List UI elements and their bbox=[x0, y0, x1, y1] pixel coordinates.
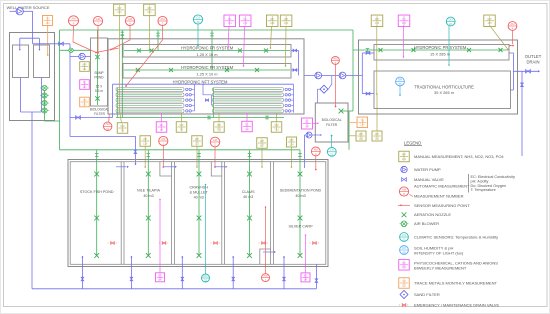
pond3 outlet baffle channel bbox=[211, 162, 222, 176]
svg-text:TM: TM bbox=[360, 118, 364, 122]
svg-text:22: 22 bbox=[402, 238, 406, 242]
legend manual valve symbol bbox=[402, 178, 407, 182]
wire NFT left group collector bbox=[194, 84, 196, 111]
instrument SH 30 soil humidity bbox=[396, 77, 405, 86]
valve nozzle PR-3 bbox=[467, 48, 471, 52]
wire WP T12 stem bbox=[276, 113, 278, 122]
arrow pond2 standpipe bbox=[130, 256, 132, 258]
svg-text:HYDROPONIC PR SYSTEM: HYDROPONIC PR SYSTEM bbox=[414, 45, 467, 50]
svg-text:124: 124 bbox=[360, 123, 365, 127]
svg-text:117: 117 bbox=[195, 141, 200, 145]
valve NFT rail a bbox=[207, 116, 211, 119]
valve nozzle pond5 top bbox=[298, 172, 303, 177]
wire tanks collector bbox=[21, 111, 42, 113]
sensor dot PR outlet red bbox=[509, 45, 513, 47]
wire feed stub horticulture bbox=[362, 93, 374, 95]
wire TM sump stub bbox=[89, 101, 90, 103]
NFT channel g2 row 5 bbox=[213, 109, 284, 113]
svg-text:23: 23 bbox=[196, 20, 200, 24]
svg-text:AM: AM bbox=[402, 187, 407, 191]
sensor box WP 107 pond4 bbox=[257, 138, 268, 149]
wire NFT right stubs bbox=[291, 88, 294, 90]
legend abbreviation divider bbox=[467, 174, 469, 193]
svg-text:EC: Electrical Conductivity: EC: Electrical Conductivity bbox=[471, 175, 516, 179]
sensor box TM greenhouse2 bbox=[357, 117, 368, 128]
wire EC pond2 probe bbox=[159, 200, 161, 273]
svg-text:FILTER: FILTER bbox=[326, 123, 338, 127]
valve nozzle pond2 mid bbox=[146, 216, 151, 221]
wire NFT left supply downcomer bbox=[112, 84, 114, 117]
svg-text:WP: WP bbox=[117, 6, 121, 10]
hydroponic FR system 2 box bbox=[123, 64, 291, 79]
svg-text:15 X: 15 X bbox=[96, 85, 103, 89]
svg-text:PC: PC bbox=[228, 17, 232, 21]
svg-text:CS: CS bbox=[330, 148, 334, 152]
valve pond4 drain bbox=[232, 277, 235, 281]
wire AM2 sensor into pond3 bbox=[214, 147, 216, 167]
well inner tank 2 bbox=[34, 45, 50, 78]
instrument CS 21 climate sensor bbox=[327, 147, 336, 156]
valve pond2 drain bbox=[130, 277, 133, 281]
valve air drop FR2 bbox=[210, 33, 214, 36]
wire TM sample line bbox=[47, 26, 49, 56]
wire WP103 sensor line to NFT bbox=[119, 15, 121, 123]
valve nozzle FR1-3 bbox=[238, 49, 242, 53]
wire EC NFT b stem bbox=[246, 113, 248, 122]
svg-text:PC: PC bbox=[83, 81, 87, 85]
svg-text:T: Temperature: T: Temperature bbox=[471, 188, 496, 192]
wire PC113 sensor line bbox=[244, 27, 245, 66]
svg-text:WP: WP bbox=[289, 138, 293, 142]
svg-text:1XX: 1XX bbox=[402, 265, 407, 269]
svg-text:pH: pH bbox=[305, 124, 308, 128]
NFT channel g1 row 4 bbox=[116, 104, 184, 108]
wire pond5 bottom drain bbox=[283, 256, 285, 289]
wire WP sump stub bbox=[89, 66, 90, 68]
wire drop into tank2 bbox=[38, 38, 40, 50]
fitting NFT g1 row 1 outlet bbox=[186, 88, 188, 90]
sensor box WP 102 top bbox=[144, 4, 156, 16]
greenhouse block 1 outline bbox=[108, 39, 304, 114]
instrument AM 9 automatic measurement bbox=[311, 147, 320, 156]
biological filter box bbox=[315, 103, 348, 142]
wire WP109 sensor line bbox=[271, 27, 272, 48]
arrow flow pond3 to pond4 bbox=[215, 166, 226, 168]
valve nozzle sump lower bbox=[95, 96, 99, 100]
wire NFT green rail left g1 bbox=[116, 88, 118, 118]
instrument AM 11 pond4 bottom bbox=[262, 274, 270, 282]
air blower B5 on sump branch bbox=[69, 48, 73, 52]
svg-text:CLAMS: CLAMS bbox=[242, 190, 255, 194]
well tank box bbox=[10, 33, 55, 121]
wire pond3 bottom drain bbox=[181, 256, 183, 289]
sensor box WP 108 top greenhouse2 bbox=[484, 15, 496, 26]
svg-text:WP: WP bbox=[375, 17, 379, 21]
wire tank1 outlet bbox=[20, 78, 22, 113]
pond4 outlet baffle channel bbox=[260, 249, 271, 264]
wire pond5 aeration drop bbox=[299, 150, 301, 256]
svg-text:SAND FILTER: SAND FILTER bbox=[414, 292, 440, 297]
wire WP T8 stem bbox=[181, 113, 183, 122]
wire pond1 aeration drop bbox=[96, 150, 98, 256]
svg-text:101: 101 bbox=[402, 157, 407, 161]
svg-text:12X: 12X bbox=[402, 283, 407, 287]
instrument AM 3 bbox=[158, 16, 167, 25]
valve emergency drain pond5 bbox=[310, 242, 312, 244]
wire air drop to sump pond bbox=[97, 30, 99, 40]
svg-text:AM: AM bbox=[106, 122, 111, 126]
wire WP108 sensor line diagonal bbox=[490, 25, 509, 49]
wire WP b riser to horticulture valve bbox=[376, 94, 378, 131]
wire WP106 sensor line through PR bbox=[376, 25, 378, 94]
wire NFT collector stub bbox=[191, 88, 194, 90]
NFT channel g1 row 1 bbox=[116, 88, 184, 92]
svg-text:40 m3: 40 m3 bbox=[243, 195, 253, 199]
wire biofilter pump discharge bbox=[312, 134, 321, 136]
fitting NFT g1 row 2 outlet bbox=[186, 94, 188, 96]
wire NFT collector stub bbox=[191, 105, 194, 107]
valve nozzle pond2 top bbox=[146, 172, 151, 177]
wire PR outlet drop bbox=[509, 53, 513, 90]
wire AM3 sensor line to NFT bbox=[126, 26, 163, 86]
wire main drain header bbox=[32, 288, 316, 290]
valve nozzle sump upper bbox=[95, 55, 99, 59]
svg-text:WP: WP bbox=[179, 123, 183, 127]
wire PR irrigation line bbox=[353, 49, 508, 51]
svg-text:WP: WP bbox=[270, 17, 274, 21]
arrow pond3 standpipe bbox=[181, 256, 183, 258]
arrow flow pond4 to pond5 bbox=[263, 251, 274, 253]
svg-text:WP: WP bbox=[402, 153, 406, 157]
valve nozzle pond4 bottom bbox=[247, 253, 252, 258]
svg-text:WP: WP bbox=[217, 123, 221, 127]
fitting NFT g2 row 3 outlet bbox=[285, 99, 287, 101]
svg-text:WATER PUMP: WATER PUMP bbox=[414, 167, 441, 172]
wire air drop to NFT rail bbox=[121, 30, 123, 118]
svg-text:EC: EC bbox=[245, 123, 249, 127]
pump P3 transfer pump 1 bbox=[315, 72, 322, 79]
wire well supply header bbox=[10, 10, 17, 12]
svg-text:103: 103 bbox=[117, 10, 122, 14]
wire air branch to sump surface bbox=[60, 49, 91, 51]
wire DO22 probe bbox=[205, 185, 207, 275]
valve nozzle pond4 top bbox=[247, 172, 252, 177]
svg-text:INTENSITY OF LIGHT (lux): INTENSITY OF LIGHT (lux) bbox=[414, 251, 464, 256]
svg-text:114: 114 bbox=[289, 142, 294, 146]
svg-text:109: 109 bbox=[270, 21, 275, 25]
svg-text:T10: T10 bbox=[217, 127, 222, 131]
svg-text:112: 112 bbox=[228, 21, 233, 25]
svg-text:WP: WP bbox=[143, 137, 147, 141]
valve nozzle pond3 mid bbox=[197, 216, 202, 221]
svg-text:AERATION NOZZLE: AERATION NOZZLE bbox=[414, 212, 451, 217]
wire air main top header bbox=[60, 29, 354, 31]
svg-text:AM: AM bbox=[314, 147, 319, 151]
svg-text:AM: AM bbox=[71, 17, 76, 21]
valve nozzle FR1-1 bbox=[137, 49, 141, 53]
sensor box TM at sump bbox=[80, 97, 90, 107]
svg-text:WP: WP bbox=[284, 17, 288, 21]
wire FR1 outlet stub bbox=[291, 50, 299, 52]
wire NFT aeration rail bbox=[116, 117, 284, 119]
svg-text:MEASUREMENT NUMBER: MEASUREMENT NUMBER bbox=[414, 194, 464, 199]
sensor box WP T12 bbox=[271, 122, 282, 133]
svg-text:AM: AM bbox=[161, 137, 166, 141]
legend measurement number arrow bbox=[410, 195, 414, 197]
valve emergency drain pond1 bbox=[108, 242, 110, 244]
wire NFT collector stub bbox=[191, 94, 194, 96]
svg-text:pH: pH bbox=[304, 278, 307, 282]
wire pond2 bottom drain bbox=[130, 256, 132, 289]
sensor box WP T10 bbox=[214, 122, 225, 133]
svg-text:TRADITIONAL HORTICULTURE: TRADITIONAL HORTICULTURE bbox=[414, 84, 474, 89]
sand filter SF1 bbox=[320, 85, 328, 93]
wire air drop to FR1 bbox=[157, 30, 159, 51]
pump P1 well water pump bbox=[16, 8, 23, 15]
svg-text:105: 105 bbox=[359, 136, 364, 140]
valve emergency drain pond3 bbox=[211, 242, 213, 244]
wire sand filter to biofilter bbox=[318, 89, 321, 103]
svg-text:AM: AM bbox=[128, 17, 133, 21]
wire blower manifold bbox=[44, 90, 46, 121]
wire AM6 sensor line to sump bbox=[111, 26, 130, 50]
svg-text:35 X 265 m: 35 X 265 m bbox=[434, 90, 454, 95]
valve nozzle FR2-3 bbox=[225, 68, 229, 72]
valve pond2 air inlet bbox=[147, 154, 151, 157]
wire AM7 sensor line bbox=[97, 26, 99, 53]
sensor box WP 117 pond3 bbox=[192, 136, 203, 147]
arrow pond5 standpipe bbox=[283, 256, 285, 258]
wire outlet drain header bbox=[513, 70, 539, 72]
svg-text:SILVER CARP: SILVER CARP bbox=[288, 225, 313, 229]
wire PC115 sensor line bbox=[403, 25, 405, 57]
wire EC stub into biofilter bbox=[313, 122, 319, 124]
sensor box WP at sump bbox=[80, 62, 90, 72]
svg-text:N: N bbox=[403, 192, 405, 196]
svg-text:AM: AM bbox=[510, 22, 515, 26]
svg-text:SUMP: SUMP bbox=[94, 71, 103, 75]
svg-text:TM: TM bbox=[402, 279, 406, 283]
instrument AM 6 bbox=[125, 16, 134, 25]
svg-text:BIOLOGICAL: BIOLOGICAL bbox=[90, 108, 110, 112]
wire EC NFT a stem bbox=[161, 113, 163, 122]
legend sand filter symbol bbox=[400, 291, 408, 299]
valve nozzle pond1 top bbox=[94, 172, 99, 177]
wire distribution header in well box bbox=[20, 37, 40, 39]
svg-text:T12: T12 bbox=[274, 127, 279, 131]
wire EC pond5 probe bbox=[305, 235, 307, 273]
sensor box PC 113 top bbox=[239, 15, 251, 26]
wire main riser x70 bbox=[69, 44, 71, 137]
svg-text:HYDROPONIC NFT SYSTEM: HYDROPONIC NFT SYSTEM bbox=[173, 79, 228, 84]
wire AM11 probe bbox=[265, 207, 267, 274]
svg-text:20: 20 bbox=[449, 22, 453, 26]
svg-text:40 m3: 40 m3 bbox=[295, 194, 305, 198]
legend automatic measurement symbol bbox=[399, 187, 408, 196]
svg-text:TRACE METALS MONTHLY MEASUREME: TRACE METALS MONTHLY MEASUREMENT bbox=[414, 281, 497, 286]
legend climatic sensor symbol bbox=[400, 233, 409, 242]
pond divider wall 1 bbox=[120, 162, 122, 265]
wire FR collector riser bbox=[298, 51, 300, 76]
sensor box WP 109 top bbox=[266, 15, 278, 26]
svg-text:EC: EC bbox=[304, 273, 308, 277]
wire WP117 sensor into pond3 bbox=[196, 146, 198, 167]
legend aeration nozzle symbol bbox=[402, 212, 407, 217]
valve nozzle pond2 bottom bbox=[146, 253, 151, 258]
sensor box WP T6 bbox=[117, 123, 128, 134]
wire pond4 bottom drain bbox=[232, 256, 234, 289]
svg-text:102: 102 bbox=[147, 10, 152, 14]
sump pond box bbox=[91, 38, 108, 106]
svg-text:SH: SH bbox=[402, 246, 407, 250]
svg-text:WP: WP bbox=[359, 132, 363, 136]
wire AM10 sensor line up to NFT bbox=[108, 114, 111, 122]
svg-text:POND: POND bbox=[94, 76, 104, 80]
valve FR1 outlet bbox=[293, 49, 297, 52]
valve nozzle pond1 mid bbox=[94, 216, 99, 221]
svg-text:PC: PC bbox=[243, 17, 247, 21]
pond divider wall 3 bbox=[221, 162, 223, 265]
well inner tank 1 bbox=[13, 45, 29, 78]
svg-text:WP: WP bbox=[195, 137, 199, 141]
valve outlet drain bbox=[526, 70, 531, 74]
wire CS23 stem bbox=[197, 24, 199, 45]
wire sump aeration line bbox=[97, 40, 99, 105]
valve nozzle PR-2 bbox=[412, 48, 416, 52]
svg-text:SH: SH bbox=[398, 78, 403, 82]
instrument AM 2 bbox=[210, 137, 220, 147]
fitting NFT g2 row 4 outlet bbox=[285, 104, 287, 106]
wire AM1 sensor into pond2 bbox=[162, 146, 164, 167]
valve nozzle FR1-2 bbox=[150, 49, 154, 53]
NFT channel g2 row 1 bbox=[213, 88, 284, 92]
sensor box EC-pH biofilter bbox=[302, 118, 313, 129]
wire well drain riser bbox=[31, 112, 33, 289]
wire FR2 irrigation line bbox=[124, 69, 290, 71]
wire air main right vertical to biofilter bbox=[352, 30, 354, 111]
valve pond1 air inlet bbox=[95, 154, 99, 157]
pump P4 transfer pump 2 bbox=[339, 72, 346, 79]
svg-text:108: 108 bbox=[487, 21, 492, 25]
svg-text:WP: WP bbox=[147, 6, 151, 10]
svg-text:TM: TM bbox=[83, 98, 87, 102]
wire WP manual link bbox=[348, 135, 356, 137]
wire CS climate link bbox=[331, 136, 333, 148]
pump P5 biofilter pump bbox=[306, 132, 312, 138]
svg-text:MANUAL VALVE: MANUAL VALVE bbox=[414, 177, 444, 182]
hydroponic FR system 1 box bbox=[123, 45, 291, 58]
pond block outer wall bbox=[68, 160, 328, 267]
NFT channel g1 row 5 bbox=[116, 109, 184, 113]
svg-text:WP: WP bbox=[375, 132, 379, 136]
arrow flow pond2 to pond3 bbox=[164, 166, 175, 168]
wire air pond manifold bbox=[60, 149, 301, 151]
instrument AM 7 bbox=[93, 16, 102, 25]
wire NFT collector stub bbox=[191, 99, 194, 101]
legend soil humidity symbol bbox=[400, 246, 409, 255]
svg-text:1.25 X 10 m: 1.25 X 10 m bbox=[197, 52, 218, 57]
valve V1 manual valve well export bbox=[59, 42, 64, 46]
valve feed PR bbox=[366, 52, 370, 55]
sensor box WP g2 b bbox=[372, 131, 382, 141]
valve NFT supply bbox=[76, 116, 81, 120]
valve nozzle pond5 bottom bbox=[298, 253, 303, 258]
valve pond3 air inlet bbox=[197, 154, 201, 157]
svg-text:WP: WP bbox=[82, 63, 86, 67]
legend manual measurement symbol bbox=[399, 151, 410, 162]
wire air main left vertical bbox=[59, 30, 61, 150]
arrow outlet drain bbox=[538, 70, 540, 72]
svg-text:126: 126 bbox=[45, 21, 50, 25]
svg-text:BIOLOGICAL: BIOLOGICAL bbox=[322, 118, 342, 122]
valve air PR inlet bbox=[366, 49, 370, 52]
fitting NFT g2 row 5 outlet bbox=[285, 110, 287, 112]
wire feed stub PR bbox=[362, 52, 374, 54]
svg-text:WP: WP bbox=[487, 17, 491, 21]
sensor box PC at sump bbox=[80, 80, 90, 90]
svg-text:NILE TILAPIA: NILE TILAPIA bbox=[137, 189, 160, 193]
svg-text:22: 22 bbox=[204, 279, 208, 283]
svg-text:EC: EC bbox=[160, 123, 164, 127]
valve feed horticulture bbox=[366, 92, 370, 95]
wire pond3 aeration drop bbox=[198, 150, 200, 256]
sensor box WP 110 top bbox=[280, 15, 292, 26]
wire drop into tank1 bbox=[19, 38, 21, 50]
svg-text:BIWEEKLY MEASUREMENT: BIWEEKLY MEASUREMENT bbox=[414, 266, 467, 271]
svg-text:PC: PC bbox=[402, 261, 406, 265]
sensor box EC-pH pond5 bottom bbox=[301, 273, 310, 282]
valve nozzle FR2-4 bbox=[255, 68, 259, 72]
legend water pump symbol bbox=[401, 166, 407, 172]
wire TM trace metals link bbox=[348, 122, 357, 124]
wire WP110 sensor line bbox=[285, 27, 288, 66]
valve pond5 drain bbox=[283, 277, 286, 281]
wire sump feed with pump bbox=[70, 56, 91, 58]
svg-text:SEDIMENTATION POND: SEDIMENTATION POND bbox=[280, 189, 322, 193]
wire NFT green rail left g2 bbox=[213, 88, 215, 118]
valve nozzle pond3 bottom bbox=[197, 253, 202, 258]
pond divider wall 4 bbox=[270, 162, 272, 265]
wire biofilter return riser bbox=[304, 135, 306, 168]
wire WP114 sensor into pond5 bbox=[291, 147, 293, 167]
svg-text:OUTLET: OUTLET bbox=[525, 54, 542, 59]
instrument DO 22 pond3 bottom bbox=[202, 274, 210, 282]
valve nozzle FR2-1 bbox=[136, 68, 140, 72]
valve NFT rail b bbox=[265, 116, 269, 119]
svg-text:HYDROPONIC FR SYSTEM: HYDROPONIC FR SYSTEM bbox=[181, 45, 234, 50]
greenhouse block 2 outline bbox=[359, 40, 518, 114]
wire pond5 end drain bbox=[315, 264, 317, 289]
svg-text:AM: AM bbox=[213, 138, 218, 142]
svg-text:111: 111 bbox=[83, 67, 87, 71]
wire AM5 sensor line to biofilter bbox=[335, 64, 337, 106]
NFT channel g1 row 2 bbox=[116, 93, 184, 97]
svg-text:21: 21 bbox=[330, 153, 334, 157]
valve emergency drain pond2 bbox=[159, 242, 161, 244]
valve pond3 drain bbox=[181, 277, 184, 281]
valve nozzle PR-4 bbox=[499, 48, 503, 52]
valve outlet side branch bbox=[521, 83, 524, 87]
valve nozzle pond4 mid bbox=[247, 216, 252, 221]
svg-text:110: 110 bbox=[284, 21, 289, 25]
wire greenhouse2 feed riser bbox=[361, 53, 363, 94]
svg-text:MANUAL MEASUREMENT: NH3, NO2,: MANUAL MEASUREMENT: NH3, NO2, NO3, PO4 bbox=[414, 154, 504, 159]
arrow pond4 standpipe bbox=[232, 256, 234, 258]
wire WP116 sensor into pond2 bbox=[144, 146, 146, 167]
valve pond1 drain bbox=[81, 277, 84, 281]
valve nozzle FR1-4 bbox=[264, 49, 268, 53]
svg-text:TM: TM bbox=[46, 17, 50, 21]
